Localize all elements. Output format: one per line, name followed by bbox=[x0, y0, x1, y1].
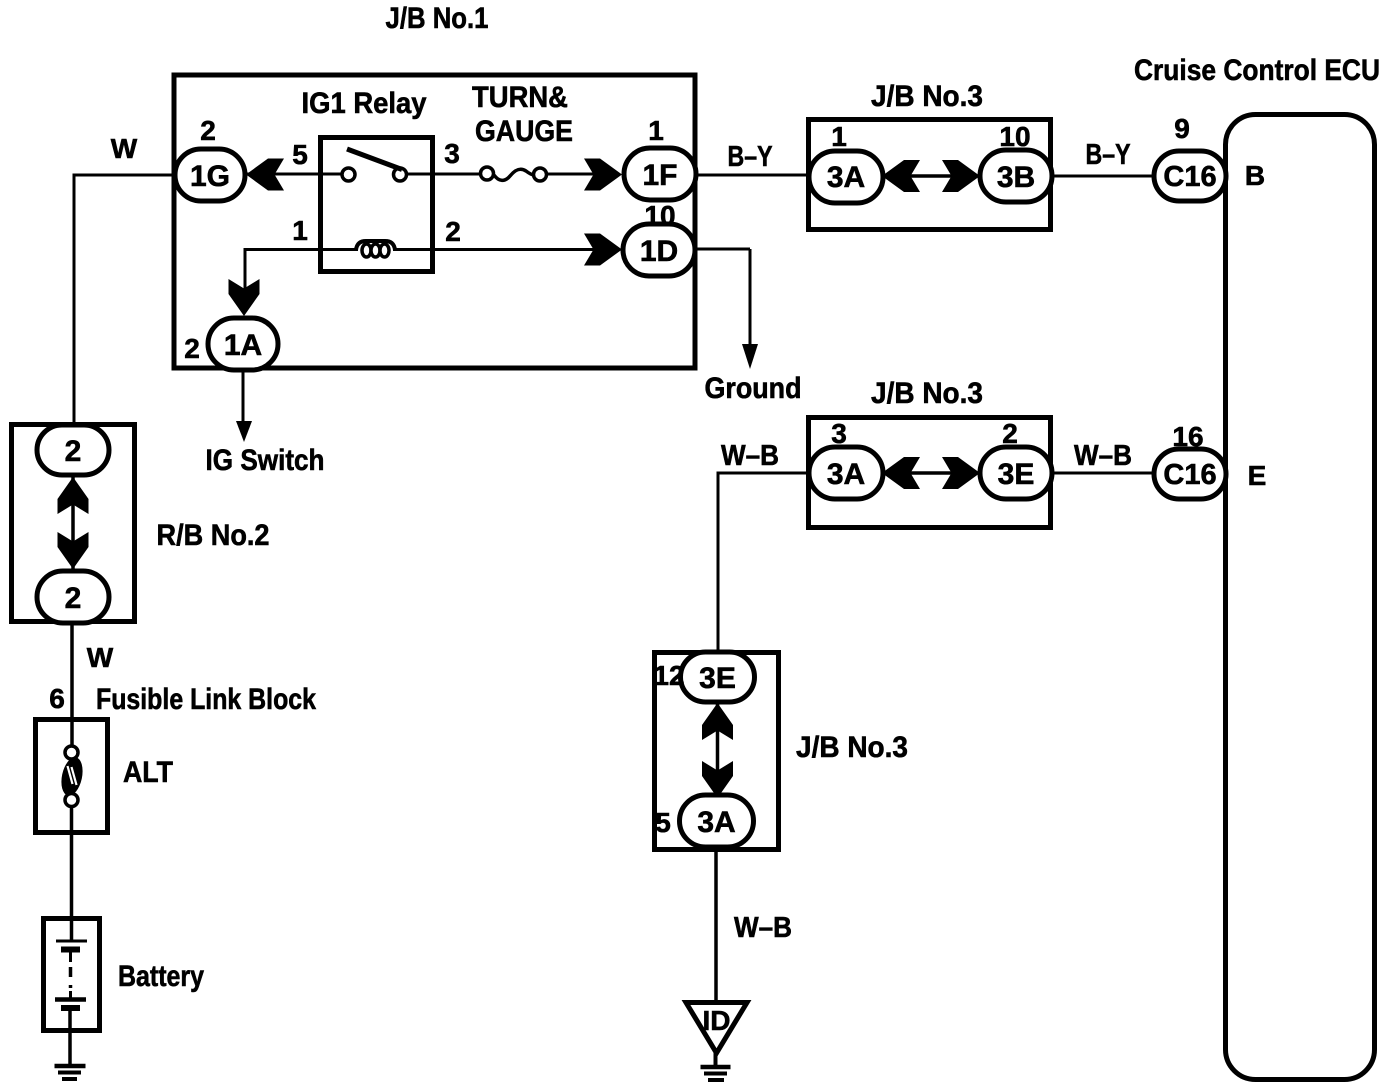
junction block R/B No.2 box bbox=[12, 425, 135, 622]
IG1 relay box bbox=[321, 138, 433, 272]
svg-text:3: 3 bbox=[444, 138, 460, 169]
svg-text:1G: 1G bbox=[190, 160, 230, 193]
wire: 1F to J/B No.3 bbox=[696, 174, 812, 177]
double arrow down (lower J/B No.3) bbox=[702, 761, 733, 798]
battery plate short thick bottom bbox=[61, 1005, 80, 1011]
connector oval 1A bbox=[208, 318, 278, 370]
svg-text:6: 6 bbox=[49, 683, 65, 714]
ground symbol (battery) bbox=[55, 1064, 86, 1069]
svg-text:10: 10 bbox=[644, 200, 675, 231]
svg-text:1A: 1A bbox=[224, 329, 262, 362]
battery box bbox=[44, 919, 100, 1031]
double arrow right (middle J/B No.3) bbox=[942, 457, 980, 489]
wire: relay coil pin 2 to arrow into 1D bbox=[393, 248, 600, 251]
arrow into 1D (pointing right) bbox=[584, 234, 622, 266]
connector oval C16 (pin 9) bbox=[1154, 151, 1226, 201]
connector oval 2 (R/B bottom) bbox=[37, 571, 109, 623]
svg-text:W–B: W–B bbox=[721, 440, 779, 472]
connector oval 3A (lower) bbox=[680, 795, 754, 847]
svg-text:GAUGE: GAUGE bbox=[475, 115, 573, 148]
svg-text:3A: 3A bbox=[697, 806, 735, 839]
svg-text:12: 12 bbox=[653, 660, 684, 691]
relay coil bump bbox=[356, 241, 395, 250]
wire between double arrows (middle J/B No.3) bbox=[905, 471, 955, 475]
svg-text:2: 2 bbox=[445, 216, 461, 247]
battery plate short thick top bbox=[61, 947, 80, 953]
junction block J/B No.3 lower box bbox=[655, 653, 779, 850]
arrowhead to Ground bbox=[742, 344, 758, 369]
svg-text:B–Y: B–Y bbox=[1086, 139, 1131, 171]
arrow into 1F (pointing right) bbox=[584, 159, 622, 191]
wire: 3E to C16 (E) bbox=[1052, 472, 1156, 475]
svg-text:ALT: ALT bbox=[123, 756, 173, 789]
connector oval 3E (middle) bbox=[980, 447, 1052, 499]
wire between vertical double arrows bbox=[716, 702, 720, 796]
svg-text:1: 1 bbox=[831, 121, 847, 152]
fuse TURN&GAUGE right terminal bbox=[534, 168, 547, 181]
ground symbol (ID) bbox=[701, 1065, 731, 1070]
svg-text:5: 5 bbox=[655, 807, 671, 838]
wire: ALT to battery bbox=[70, 806, 74, 941]
svg-text:10: 10 bbox=[999, 121, 1030, 152]
fuse TURN&GAUGE left terminal bbox=[481, 167, 494, 180]
wire: relay pin 3 to fuse bbox=[405, 173, 482, 176]
fusible link block ALT box bbox=[36, 720, 108, 833]
connector oval C16 (pin 16) bbox=[1154, 449, 1226, 499]
svg-text:W: W bbox=[111, 133, 138, 164]
svg-text:E: E bbox=[1248, 460, 1267, 491]
wire: W horizontal to 1G bbox=[74, 174, 176, 177]
svg-text:J/B No.3: J/B No.3 bbox=[871, 377, 983, 410]
wire: lower 3A down to ID ground bbox=[714, 847, 718, 1004]
svg-text:C16: C16 bbox=[1163, 161, 1216, 193]
svg-text:W: W bbox=[87, 642, 114, 673]
connector oval 1G bbox=[175, 149, 245, 201]
connector oval 2 (R/B top) bbox=[37, 425, 109, 475]
fusible link element S-curve bbox=[58, 755, 86, 797]
wire: W vertical down to R/B No.2 bbox=[73, 174, 76, 431]
fusible link terminal bottom bbox=[65, 794, 78, 807]
svg-text:J/B No.1: J/B No.1 bbox=[386, 2, 489, 35]
svg-text:1: 1 bbox=[648, 115, 664, 146]
arrow into 1G (pointing left) bbox=[246, 159, 284, 191]
wire: 1D out to ground drop bbox=[695, 248, 750, 251]
svg-text:Battery: Battery bbox=[118, 960, 204, 993]
svg-text:1: 1 bbox=[292, 215, 308, 246]
svg-text:W–B: W–B bbox=[734, 912, 792, 944]
fuse wavy element bbox=[494, 169, 534, 180]
svg-text:ID: ID bbox=[703, 1005, 731, 1036]
relay switch contact left bbox=[342, 168, 355, 181]
double arrow up (R/B No.2) bbox=[58, 477, 89, 514]
relay switch blade bbox=[347, 149, 402, 170]
arrowhead to IG Switch bbox=[236, 421, 252, 442]
svg-text:Cruise Control ECU: Cruise Control ECU bbox=[1134, 54, 1380, 87]
svg-text:3E: 3E bbox=[998, 458, 1035, 491]
connector oval 3E (lower) bbox=[681, 652, 755, 702]
svg-text:B–Y: B–Y bbox=[728, 141, 773, 173]
svg-text:16: 16 bbox=[1172, 421, 1203, 452]
battery dashed center line bbox=[69, 967, 73, 988]
double arrow down (R/B No.2) bbox=[58, 532, 89, 569]
connector oval 1D bbox=[623, 224, 695, 276]
svg-text:J/B No.3: J/B No.3 bbox=[871, 80, 983, 113]
wire: battery to ground bbox=[68, 1008, 72, 1065]
svg-text:J/B No.3: J/B No.3 bbox=[796, 731, 908, 764]
svg-text:3E: 3E bbox=[699, 662, 736, 695]
connector oval 1F bbox=[624, 148, 696, 200]
wire: fuse to arrow into 1F bbox=[546, 173, 600, 176]
svg-text:2: 2 bbox=[65, 435, 82, 468]
fusible link terminal top bbox=[65, 746, 78, 759]
svg-text:TURN&: TURN& bbox=[472, 81, 568, 114]
junction block J/B No.3 middle box bbox=[809, 418, 1051, 528]
svg-text:9: 9 bbox=[1174, 113, 1190, 144]
Cruise Control ECU box bbox=[1226, 115, 1375, 1080]
double arrow up (lower J/B No.3) bbox=[702, 703, 733, 740]
junction block J/B No.3 top box bbox=[809, 120, 1051, 230]
ground point triangle ID bbox=[686, 1003, 747, 1054]
wire: ground drop vertical bbox=[749, 249, 752, 347]
svg-text:2: 2 bbox=[65, 582, 82, 615]
wire: middle 3A left and down to lower J/B No.3 bbox=[718, 473, 810, 654]
svg-text:2: 2 bbox=[184, 333, 200, 364]
relay coil loops bbox=[362, 244, 371, 257]
svg-text:Fusible Link Block: Fusible Link Block bbox=[96, 683, 316, 716]
svg-text:R/B No.2: R/B No.2 bbox=[157, 519, 270, 552]
wire: 1G to relay pin 5 bbox=[246, 173, 343, 176]
svg-text:B: B bbox=[1245, 160, 1265, 191]
connector oval 3A (middle) bbox=[809, 447, 883, 499]
wire: relay coil pin 1 to left bbox=[245, 248, 358, 251]
wire: pin1 down to 1A bbox=[244, 248, 247, 290]
svg-text:2: 2 bbox=[1002, 418, 1018, 449]
wire: R/B No.2 down to ALT fuse bbox=[70, 622, 74, 748]
svg-text:2: 2 bbox=[200, 115, 216, 146]
svg-text:1F: 1F bbox=[642, 159, 677, 192]
junction block J/B No.1 box bbox=[174, 75, 695, 368]
wire: 1A down to IG Switch bbox=[242, 370, 245, 424]
wire: 3B to C16 (B) bbox=[1052, 175, 1156, 178]
connector oval 3A (top) bbox=[809, 151, 883, 203]
svg-text:C16: C16 bbox=[1163, 459, 1216, 491]
battery stub below plate bbox=[69, 950, 72, 962]
svg-text:1D: 1D bbox=[640, 235, 678, 268]
battery plate long bottom bbox=[55, 997, 86, 1002]
arrow down into 1A bbox=[229, 279, 260, 316]
svg-text:3B: 3B bbox=[997, 161, 1035, 194]
svg-text:3A: 3A bbox=[827, 458, 865, 491]
svg-text:IG1 Relay: IG1 Relay bbox=[302, 87, 427, 120]
relay switch contact right bbox=[394, 168, 407, 181]
wire: ID triangle to ground bbox=[714, 1050, 718, 1066]
svg-text:W–B: W–B bbox=[1074, 440, 1132, 472]
svg-text:IG Switch: IG Switch bbox=[206, 444, 325, 477]
svg-text:3A: 3A bbox=[827, 161, 865, 194]
wire between double arrows (top J/B No.3) bbox=[905, 174, 955, 178]
double arrow left (middle J/B No.3) bbox=[882, 457, 920, 489]
connector oval 3B bbox=[980, 150, 1052, 202]
wire between R/B arrows bbox=[71, 474, 75, 572]
svg-text:3: 3 bbox=[831, 418, 847, 449]
battery plate long top bbox=[56, 940, 87, 943]
double arrow left (top J/B No.3) bbox=[882, 160, 920, 192]
double arrow right (top J/B No.3) bbox=[942, 160, 980, 192]
svg-text:Ground: Ground bbox=[705, 372, 802, 405]
battery stub above bottom plate bbox=[69, 991, 72, 999]
svg-text:5: 5 bbox=[292, 139, 308, 170]
